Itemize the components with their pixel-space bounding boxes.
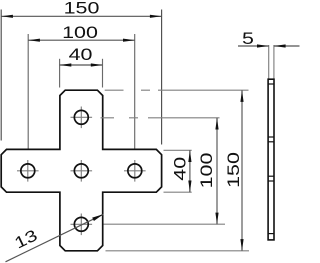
arrow bottom of 40 right	[188, 181, 191, 193]
svg-text:100: 100	[62, 24, 98, 42]
arrow right of 5 dim (pointing left)	[274, 44, 286, 47]
svg-text:5: 5	[242, 30, 254, 48]
extension line left of 150 top dim	[0, 10, 2, 141]
arrow bottom of 150 right	[240, 239, 243, 251]
extension line top of right 40 dim	[164, 149, 192, 151]
left hole crosshair	[17, 170, 39, 172]
dimension line 150 top	[1, 15, 161, 17]
extension line left of 5 dim	[268, 45, 270, 79]
arrow left of 100 top	[28, 39, 40, 42]
extension line right of 5 dim	[273, 45, 275, 79]
right hole	[128, 164, 142, 178]
extension line right of 40 top dim	[102, 59, 104, 88]
svg-text:40: 40	[69, 46, 93, 64]
side view chamfer line bottom	[268, 233, 274, 235]
top hole crosshair	[71, 116, 93, 118]
center hole	[74, 164, 88, 178]
leader line for 13	[6, 214, 104, 261]
svg-text:150: 150	[64, 0, 100, 18]
extension line bottom of right 100 dim	[104, 223, 226, 225]
extension line top of right 100 dim	[101, 117, 220, 119]
dimension line 5 (right tail)	[274, 45, 300, 47]
extension line left of 100 top dim	[27, 34, 29, 149]
right hole crosshair	[124, 170, 146, 172]
arrow top of 40 right	[188, 150, 191, 162]
arrow top of 150 right	[240, 90, 243, 102]
dimension line 40 right	[189, 150, 191, 192]
arrow bottom of 100 right	[215, 213, 218, 225]
side view bar outline	[268, 79, 274, 240]
svg-text:40: 40	[172, 157, 190, 181]
svg-text:100: 100	[198, 153, 216, 189]
dimension line 150 right	[241, 90, 243, 251]
dimension line 5 (left tail)	[238, 45, 269, 47]
arrow right of 150 top	[150, 15, 162, 18]
arrow right of 100 top	[123, 39, 135, 42]
center hole crosshair	[71, 170, 93, 172]
extension line top of right 150 dim	[105, 89, 249, 91]
arrow left of 5 dim (pointing right)	[257, 44, 269, 47]
extension line bottom of right 40 dim	[164, 191, 192, 193]
side view edge line lower pair	[268, 175, 274, 177]
bottom hole	[74, 217, 88, 231]
top hole	[74, 110, 88, 124]
arrow left of 40 top	[60, 63, 72, 66]
arrow top of 100 right	[215, 118, 218, 130]
arrow right of 40 top	[91, 63, 103, 66]
extension line bottom of right 150 dim	[106, 250, 250, 252]
dimension line 100 right	[216, 118, 218, 225]
leader arrow 13	[92, 214, 103, 221]
dimension line 100 top	[28, 39, 135, 41]
cross plate outline	[1, 90, 161, 251]
bottom hole crosshair	[71, 223, 93, 225]
dimension line 40 top	[60, 64, 103, 66]
extension line right of 100 top dim	[134, 34, 136, 149]
left hole	[21, 164, 35, 178]
side view edge line upper pair	[268, 136, 274, 138]
svg-text:150: 150	[225, 152, 243, 188]
arrow left of 150 top	[1, 15, 13, 18]
extension line right of 150 top dim	[161, 10, 163, 145]
side view chamfer line top	[268, 83, 274, 85]
extension line left of 40 top dim	[59, 59, 61, 88]
